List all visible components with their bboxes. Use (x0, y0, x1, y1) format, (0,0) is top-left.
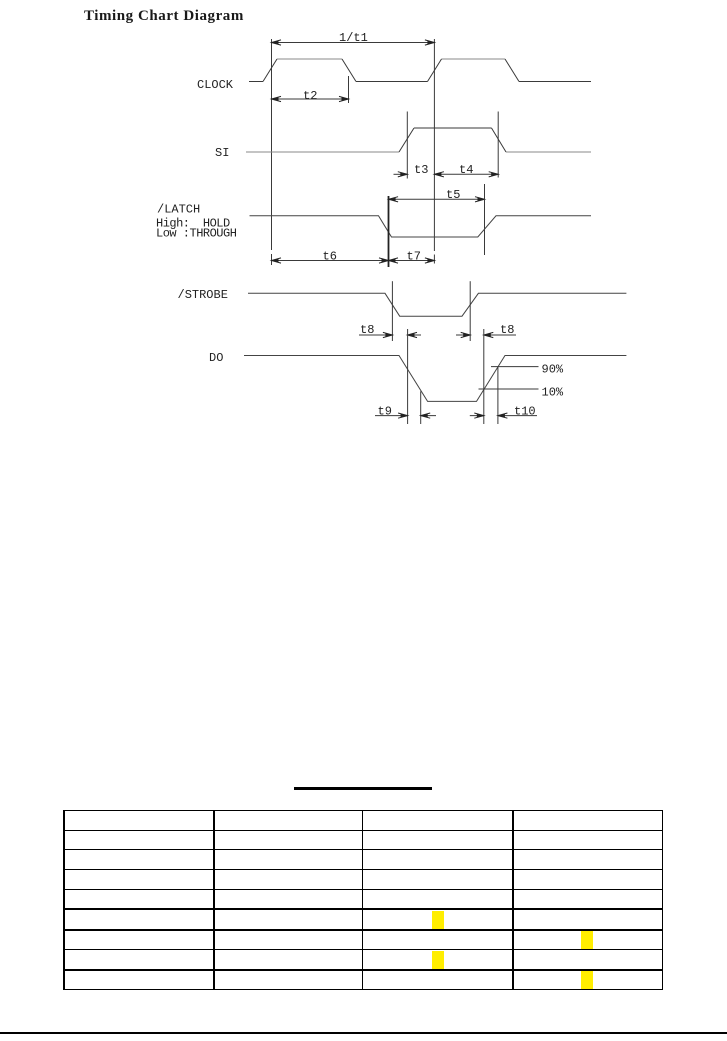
dimension t8 right (456, 334, 516, 336)
svg-text:t5: t5 (446, 188, 460, 202)
wire extension line center (x=434.5) (433, 39, 435, 264)
svg-text:t4: t4 (459, 163, 473, 177)
dimension 1/t1 (272, 42, 435, 44)
highlight row7 col4 (581, 931, 593, 949)
dimension t6 (272, 260, 389, 262)
bottom rule (0, 1032, 727, 1034)
svg-text:t2: t2 (303, 89, 317, 103)
dimension t7 (389, 260, 435, 262)
wire extension STROBE fall (x=392.4) (391, 281, 393, 341)
dimension t10 (470, 415, 537, 417)
wire extension SI rise (x=407.3) (406, 112, 408, 179)
dimension t3 (394, 173, 408, 175)
svg-text:/LATCH: /LATCH (157, 203, 200, 217)
node 10 percent line (479, 388, 539, 390)
table frame (0, 0, 1, 1)
timing diagram (0, 0, 727, 450)
wire extension tick t6 left (271, 254, 273, 265)
svg-text:t6: t6 (323, 250, 337, 264)
svg-text:t7: t7 (407, 250, 421, 264)
wire STROBE waveform (248, 293, 626, 316)
svg-text:/STROBE: /STROBE (178, 288, 228, 302)
wire DO waveform (244, 356, 626, 402)
table outer and grid: horizontal lines (63, 810, 663, 812)
svg-text:SI: SI (215, 146, 229, 160)
svg-text:t9: t9 (378, 405, 392, 419)
svg-text:t3: t3 (414, 163, 428, 177)
svg-text:10%: 10% (542, 386, 564, 400)
wire SI waveform (246, 151, 591, 153)
wire extension SI fall (x=498.2) (497, 112, 499, 178)
table vertical lines (63, 810, 65, 991)
wire extension DO rise 10pct (x=483.8) (483, 329, 485, 424)
svg-text:DO: DO (209, 351, 223, 365)
wire extension LATCH fall thick (x=388.5) (388, 196, 390, 267)
highlight row9 col4 (581, 971, 593, 989)
dimension t2 (272, 98, 349, 100)
highlight row8 col3 (432, 951, 444, 970)
dimension t4 (434, 173, 498, 175)
wire extension tick t2 right (x=348.5) (348, 76, 350, 103)
heading underline bar (294, 787, 432, 790)
wire extension DO fall 90pct (x=407.6) (407, 329, 409, 424)
svg-text:t8: t8 (500, 323, 514, 337)
wire LATCH waveform (250, 216, 592, 237)
wire extension t5 right (x=484.5) (484, 184, 486, 255)
wire extension line left (x=271) (271, 39, 273, 250)
wire extension STROBE rise (x=470.2) (469, 281, 471, 341)
node 90 percent line (491, 366, 539, 368)
svg-text:1/t1: 1/t1 (339, 31, 368, 45)
svg-text:Low :THROUGH: Low :THROUGH (156, 227, 237, 241)
title (84, 8, 244, 25)
svg-text:t10: t10 (514, 405, 536, 419)
wire extension DO fall 10pct (x=420.7) (420, 391, 422, 424)
wire CLOCK waveform (249, 81, 591, 83)
svg-text:90%: 90% (542, 363, 564, 377)
svg-text:CLOCK: CLOCK (197, 78, 234, 92)
highlight row6 col3 (432, 911, 444, 930)
wire extension DO rise 90pct (x=497.9) (497, 366, 499, 424)
dimension t5 (389, 198, 485, 200)
